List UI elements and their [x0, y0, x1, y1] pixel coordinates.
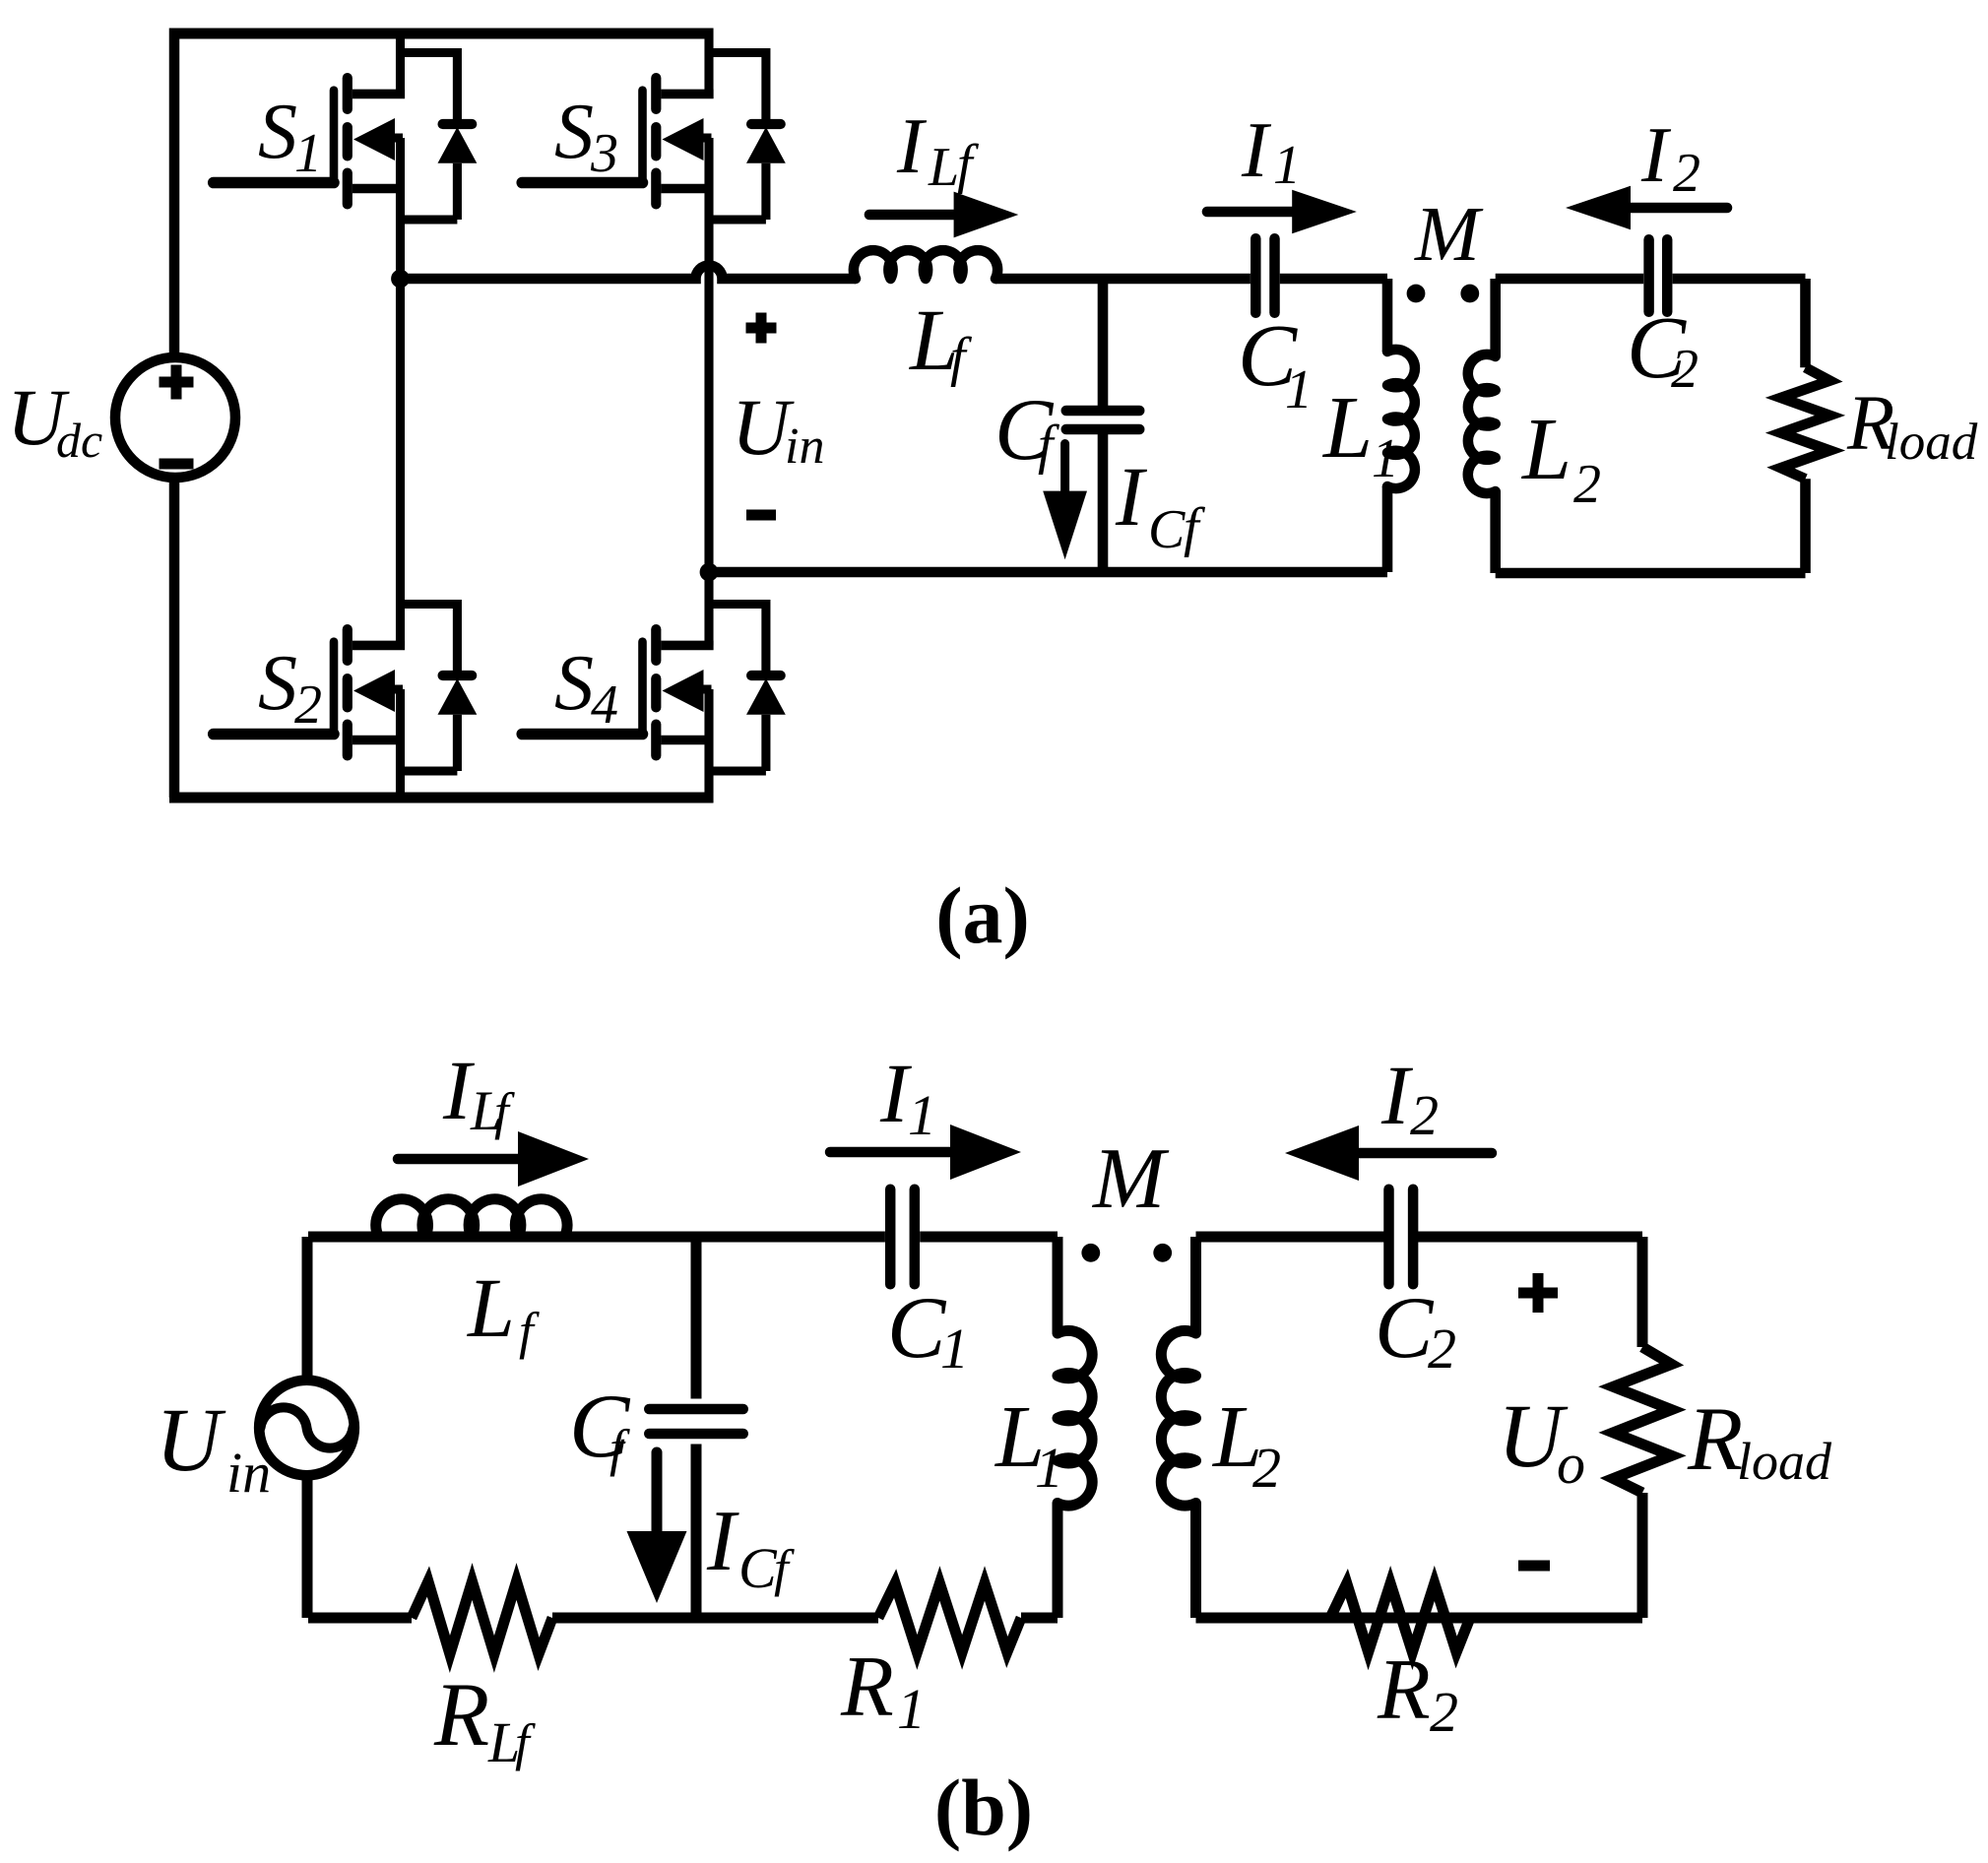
svg-text:1: 1 [908, 1083, 936, 1147]
svg-text:2: 2 [1410, 1083, 1439, 1147]
svg-text:load: load [1737, 1432, 1832, 1491]
svg-text:4: 4 [591, 675, 618, 736]
svg-text:1: 1 [1035, 1436, 1063, 1500]
svg-text:1: 1 [1372, 428, 1399, 489]
svg-text:1: 1 [1273, 135, 1301, 196]
svg-text:S: S [554, 89, 594, 175]
svg-text:load: load [1885, 414, 1978, 471]
svg-text:U: U [156, 1389, 226, 1490]
svg-text:f: f [1038, 415, 1060, 476]
svg-text:2: 2 [1428, 1317, 1456, 1381]
svg-text:f: f [957, 134, 980, 195]
svg-text:S: S [258, 640, 297, 727]
svg-text:R: R [433, 1664, 489, 1765]
svg-text:L: L [928, 137, 959, 198]
svg-text:C: C [1148, 499, 1186, 560]
svg-text:2: 2 [294, 675, 322, 736]
svg-text:R: R [1377, 1642, 1431, 1738]
svg-text:I: I [1115, 449, 1147, 544]
svg-text:S: S [554, 640, 594, 727]
svg-text:1: 1 [1285, 359, 1313, 420]
svg-text:(a): (a) [935, 870, 1030, 960]
svg-text:C: C [887, 1280, 947, 1377]
svg-text:L: L [466, 1260, 515, 1355]
svg-text:I: I [706, 1494, 739, 1589]
svg-text:f: f [515, 1714, 536, 1771]
svg-text:C: C [1375, 1280, 1435, 1377]
svg-text:C: C [738, 1536, 778, 1600]
svg-text:I: I [896, 101, 928, 190]
svg-text:in: in [785, 418, 824, 475]
svg-text:L: L [1321, 379, 1373, 477]
svg-text:1: 1 [940, 1317, 969, 1381]
svg-text:R: R [1687, 1388, 1743, 1489]
svg-text:M: M [1091, 1131, 1170, 1227]
svg-text:dc: dc [56, 413, 102, 468]
svg-text:1: 1 [897, 1677, 926, 1741]
svg-text:1: 1 [294, 123, 322, 184]
svg-text:f: f [1184, 497, 1206, 558]
svg-text:3: 3 [590, 123, 618, 184]
svg-text:2: 2 [1252, 1436, 1281, 1500]
svg-text:S: S [258, 89, 297, 175]
svg-text:2: 2 [1673, 143, 1700, 204]
svg-text:2: 2 [1430, 1680, 1458, 1744]
svg-text:(b): (b) [934, 1763, 1033, 1852]
svg-text:R: R [840, 1639, 894, 1735]
svg-text:L: L [1520, 401, 1571, 498]
svg-text:2: 2 [1573, 454, 1601, 515]
svg-text:I: I [1380, 1048, 1413, 1142]
svg-text:o: o [1557, 1432, 1585, 1496]
svg-text:I: I [1241, 105, 1272, 194]
svg-text:f: f [774, 1540, 795, 1597]
svg-text:2: 2 [1671, 339, 1699, 400]
svg-text:f: f [494, 1083, 515, 1140]
svg-text:f: f [519, 1303, 540, 1360]
svg-text:f: f [950, 327, 973, 388]
svg-text:in: in [226, 1441, 271, 1505]
svg-text:M: M [1414, 192, 1484, 278]
svg-text:I: I [1640, 110, 1672, 199]
